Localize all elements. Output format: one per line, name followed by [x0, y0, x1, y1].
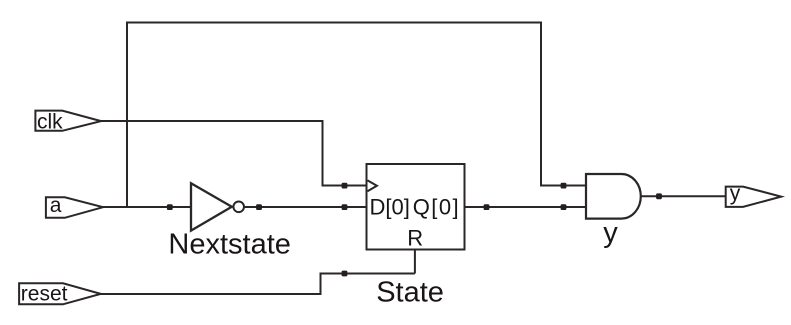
- svg-text:a: a: [50, 194, 62, 217]
- junction dot: clk stub at State: [342, 183, 348, 189]
- wire nextstate: inverter output to D[0]: [244, 206, 367, 208]
- wire q: Q[0] output to AND gate input: [465, 206, 587, 208]
- inverter Nextstate: [191, 183, 232, 230]
- wire R pin: State bottom to reset net: [414, 250, 416, 274]
- svg-text:Q[0]: Q[0]: [413, 194, 460, 219]
- junction dot: after inverter bubble: [256, 204, 262, 210]
- flip-flop clock pin arrowhead: [368, 180, 377, 191]
- svg-text:State: State: [376, 277, 444, 309]
- junction dot: a-wire before inverter: [167, 204, 173, 210]
- output tag y: [726, 187, 782, 207]
- svg-text:R: R: [407, 226, 423, 251]
- junction dot: AND bottom input: [561, 204, 567, 210]
- svg-text:y: y: [603, 217, 618, 249]
- svg-text:reset: reset: [21, 283, 68, 306]
- svg-text:Nextstate: Nextstate: [168, 229, 291, 261]
- AND gate y: [586, 174, 641, 219]
- junction dot: Q wire near State: [484, 204, 490, 210]
- junction dot: AND top input: [561, 183, 567, 189]
- junction dot: output wire: [656, 193, 662, 199]
- wire y: AND gate output to output tag y: [641, 195, 726, 197]
- flip-flop State box: [367, 164, 465, 250]
- svg-text:D[0]: D[0]: [370, 194, 410, 219]
- inverter bubble: [233, 202, 244, 213]
- input tag a: [46, 197, 103, 218]
- wire clk: from clk tag to State clock pin: [101, 121, 367, 186]
- input tag clk: [35, 111, 101, 131]
- junction dot: D wire at State: [342, 204, 348, 210]
- wire a: input a to inverter input: [102, 206, 191, 208]
- input tag reset: [19, 283, 101, 304]
- svg-text:clk: clk: [37, 111, 63, 134]
- junction dot: reset wire at R: [342, 271, 348, 277]
- svg-text:y: y: [730, 182, 741, 205]
- wire feedback top: node N up-over-down to AND gate input: [127, 23, 586, 208]
- wire reset: reset tag to R pin: [100, 274, 415, 295]
